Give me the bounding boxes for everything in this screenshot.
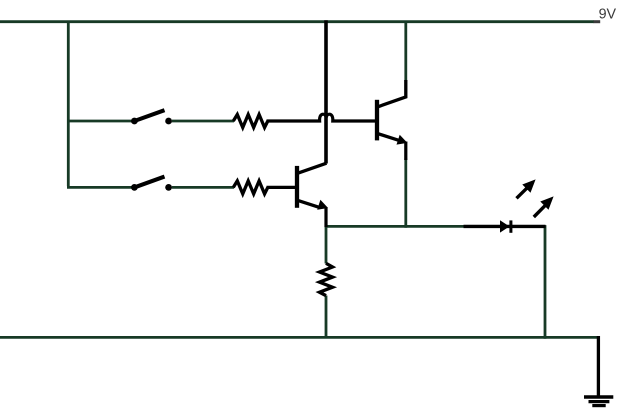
svg-text:9V: 9V xyxy=(599,7,617,23)
